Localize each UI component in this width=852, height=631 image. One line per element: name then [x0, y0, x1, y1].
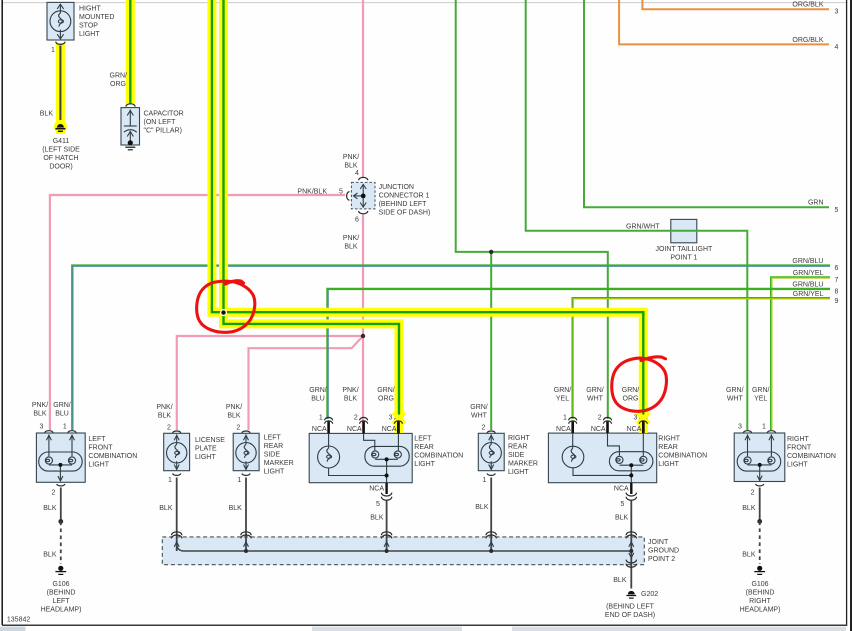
svg-text:PNK/: PNK/ [32, 402, 48, 409]
svg-text:GRN/: GRN/ [554, 387, 572, 394]
svg-text:PNK/: PNK/ [342, 387, 358, 394]
junction connector 1 box [351, 182, 375, 209]
wire PNK/BLK horizontal to junction pin 5 and down to left front pin 3 [50, 195, 345, 430]
wire PNK/BLK from top to junction connector pin 4 [362, 0, 364, 177]
left front pin 2 arc [57, 484, 65, 486]
bus junction dot left rear side marker [244, 549, 248, 553]
right rear NCA arcs pin 1 [569, 417, 577, 423]
wire GRN/BLU pin 6 to left front pin 1 [72, 266, 830, 430]
svg-text:1: 1 [63, 423, 67, 430]
svg-text:BLK: BLK [370, 515, 384, 522]
svg-text:BLU: BLU [55, 411, 69, 418]
capacitor ground bars [125, 146, 135, 148]
svg-text:RIGHT: RIGHT [658, 435, 681, 442]
svg-text:1: 1 [762, 423, 766, 430]
svg-text:(BEHIND LEFT: (BEHIND LEFT [379, 201, 428, 208]
svg-text:GRN/BLU: GRN/BLU [792, 281, 823, 288]
svg-text:BLU: BLU [311, 395, 325, 402]
frame right inner border [846, 0, 848, 626]
GRN core of capacitor wire [129, 0, 131, 105]
svg-text:COMBINATION: COMBINATION [414, 452, 463, 459]
left rear NCA arcs pin 2 [360, 417, 368, 423]
svg-text:FRONT: FRONT [88, 444, 113, 451]
svg-text:G202: G202 [641, 591, 658, 598]
svg-text:LICENSE: LICENSE [195, 437, 225, 444]
joint ground entry arrows [174, 542, 634, 558]
svg-text:NCA: NCA [382, 426, 397, 433]
svg-text:1: 1 [237, 477, 241, 484]
svg-text:GRN/YEL: GRN/YEL [793, 270, 824, 277]
svg-text:GRN/BLU: GRN/BLU [792, 258, 823, 265]
left front combination light box [36, 433, 85, 482]
junction dot halo and dot on wire A/B [220, 309, 227, 316]
svg-text:SIDE: SIDE [508, 452, 525, 459]
svg-text:2: 2 [598, 414, 602, 421]
svg-text:BLK: BLK [344, 244, 358, 251]
svg-text:JUNCTION: JUNCTION [379, 184, 414, 191]
svg-text:LIGHT: LIGHT [787, 462, 808, 469]
GRN core of highlighted wire B [224, 0, 400, 420]
left front combination internals [39, 435, 82, 481]
svg-text:GRN/: GRN/ [586, 387, 604, 394]
svg-text:GRN/WHT: GRN/WHT [626, 224, 660, 231]
joint ground entry arcs license [172, 532, 182, 539]
svg-text:5: 5 [621, 501, 625, 508]
svg-text:7: 7 [835, 277, 839, 284]
svg-text:NCA: NCA [591, 426, 606, 433]
joint ground exit arcs [626, 560, 636, 568]
svg-text:OF HATCH: OF HATCH [43, 155, 78, 162]
svg-text:ORG: ORG [378, 395, 394, 402]
lower arc redrawn right rear pin 3 [639, 421, 647, 424]
svg-text:BLK: BLK [344, 163, 358, 170]
svg-text:LIGHT: LIGHT [264, 468, 285, 475]
joint taillight point 1 box [671, 219, 697, 242]
frame left border [1, 0, 3, 625]
wire GRN/WHT branch to right rear side marker [490, 252, 492, 430]
svg-text:3: 3 [738, 423, 742, 430]
svg-text:BLK: BLK [615, 515, 629, 522]
wire GRN/WHT through joint taillight point to right front pin 3 [526, 0, 748, 430]
right rear filament dots [629, 463, 633, 467]
right rear combination light box [548, 433, 656, 483]
svg-text:PLATE: PLATE [195, 446, 217, 453]
svg-text:NCA: NCA [556, 426, 571, 433]
lower arc redrawn left rear pin 3 [394, 421, 402, 424]
wire ORG/BLK pin 3 [642, 0, 829, 9]
wire BLK left rear side marker to joint ground [245, 478, 247, 552]
left rear exit pin 5 arcs [381, 493, 391, 501]
svg-text:2: 2 [51, 489, 55, 496]
svg-text:LEFT: LEFT [264, 434, 282, 441]
svg-text:ORG: ORG [623, 395, 639, 402]
capacitor top connector arc [126, 104, 135, 107]
svg-text:YEL: YEL [556, 395, 569, 402]
svg-text:GRN/: GRN/ [53, 402, 71, 409]
svg-text:(BEHIND LEFT: (BEHIND LEFT [606, 604, 655, 611]
wire BLK dashed to G106 left [60, 522, 62, 565]
svg-text:135842: 135842 [7, 617, 30, 624]
joint ground exit arrow right rear [629, 553, 634, 558]
svg-text:REAR: REAR [658, 444, 677, 451]
svg-text:3: 3 [389, 414, 393, 421]
joint ground entry arcs right rear comb [626, 532, 636, 539]
svg-text:G106: G106 [751, 581, 768, 588]
svg-text:2: 2 [354, 414, 358, 421]
right front pin 1 arc [767, 431, 775, 433]
svg-text:GROUND: GROUND [648, 548, 679, 555]
right rear side marker light box [478, 433, 504, 470]
G411 ground symbol [54, 120, 67, 133]
G106 right ground symbol [754, 566, 765, 575]
wire GRN pin 5 [584, 0, 829, 207]
wire GRN/BLU pin 8 to left rear combination pin 1 [328, 289, 831, 419]
svg-text:LEFT: LEFT [414, 435, 432, 442]
capacitor internal ground dot [128, 140, 133, 145]
left marker pin 2 arc [242, 431, 250, 433]
junction connector pin 6 arc [359, 211, 368, 214]
capacitor box [121, 108, 140, 145]
joint ground point 2 box [162, 537, 644, 565]
svg-text:LEFT: LEFT [88, 436, 106, 443]
highlighter X mark right rear pin 3 [638, 413, 650, 424]
joint ground entry arcs left marker [241, 532, 251, 539]
frame bottom border [2, 624, 847, 626]
svg-text:GRN/: GRN/ [752, 387, 770, 394]
high mounted stop light box [47, 2, 74, 40]
svg-text:ORG/BLK: ORG/BLK [792, 37, 823, 44]
svg-text:BLK: BLK [229, 505, 243, 512]
wire PNK/BLK junction pin 6 down to splice dot [362, 215, 364, 431]
svg-text:6: 6 [835, 265, 839, 272]
black stub over X left rear pin 3 [397, 421, 400, 433]
svg-text:3: 3 [634, 414, 638, 421]
svg-text:MARKER: MARKER [264, 460, 294, 467]
svg-text:BLK: BLK [344, 395, 358, 402]
svg-text:YEL: YEL [754, 395, 767, 402]
svg-text:4: 4 [355, 170, 359, 177]
svg-text:(ON LEFT: (ON LEFT [144, 119, 177, 126]
highlighter GRN/ORG wire A to right rear combination [212, 0, 643, 433]
right front combination internals [737, 435, 781, 481]
svg-text:LIGHT: LIGHT [195, 454, 216, 461]
highlighter GRN/ORG wire B to left rear combination [224, 0, 400, 433]
wire GRN/WHT to rear markers and right rear combination pin 2 [456, 0, 608, 419]
left front pin 3 arc [45, 431, 53, 433]
GRN core of highlighted wire A [212, 0, 643, 420]
red annotation circle left [197, 281, 667, 412]
svg-text:BLK: BLK [43, 505, 57, 512]
left rear combination light box [309, 433, 412, 482]
svg-text:(LEFT SIDE: (LEFT SIDE [42, 147, 80, 154]
NCA stub left rear pin 2 [362, 422, 365, 434]
left rear combination internals [318, 433, 410, 482]
svg-text:1: 1 [319, 414, 323, 421]
right rear side marker internals [481, 435, 501, 470]
svg-text:(BEHIND: (BEHIND [746, 589, 775, 596]
svg-text:2: 2 [751, 489, 755, 496]
svg-text:NCA: NCA [312, 426, 327, 433]
svg-text:WHT: WHT [727, 395, 744, 402]
svg-text:1: 1 [168, 477, 172, 484]
svg-text:COMBINATION: COMBINATION [658, 452, 707, 459]
svg-text:HEADLAMP): HEADLAMP) [41, 606, 82, 613]
svg-text:LEFT: LEFT [52, 598, 70, 605]
svg-text:BLK: BLK [33, 411, 47, 418]
svg-text:G106: G106 [52, 581, 69, 588]
svg-text:GRN/: GRN/ [309, 387, 327, 394]
frame top grey line [3, 2, 846, 4]
svg-text:CONNECTOR 1: CONNECTOR 1 [379, 192, 430, 199]
right rear NCA arcs pin 3 [639, 417, 647, 423]
svg-text:GRN: GRN [808, 200, 824, 207]
left rear side marker light box [233, 433, 259, 470]
G202 ground symbol [626, 591, 636, 598]
license pin 2 arc [173, 431, 181, 433]
svg-text:NCA: NCA [369, 485, 384, 492]
junction connector internals [353, 184, 366, 208]
NCA stub right rear pin 3 [642, 422, 645, 434]
wire PNK/BLK splice to license plate light [177, 336, 363, 430]
wire BLK right rear combination to joint ground and G202 [630, 500, 632, 589]
stop light pin 1 connector arc [56, 42, 65, 45]
license plate light box [164, 433, 190, 470]
wire BLK left front combination to splice [60, 488, 62, 522]
svg-text:4: 4 [835, 44, 839, 51]
highlighter capacitor GRN/ORG wire [126, 0, 135, 105]
svg-text:PNK/: PNK/ [226, 404, 242, 411]
wire GRN/YEL pin 7 to right front pin 1 [771, 277, 830, 430]
svg-text:GRN/: GRN/ [726, 387, 744, 394]
svg-text:GRN/: GRN/ [470, 404, 488, 411]
svg-text:MOUNTED: MOUNTED [79, 14, 114, 21]
svg-text:5: 5 [339, 189, 343, 196]
svg-text:GRN/YEL: GRN/YEL [793, 291, 824, 298]
svg-text:WHT: WHT [587, 395, 604, 402]
bus junction dot left rear combination [385, 549, 389, 553]
NCA exit stub left rear pin 5 [385, 483, 387, 494]
svg-text:GRN/: GRN/ [110, 73, 128, 80]
NCA stub right rear pin 2 [606, 422, 609, 434]
svg-text:ORG/BLK: ORG/BLK [792, 2, 823, 9]
svg-text:RIGHT: RIGHT [787, 436, 810, 443]
svg-text:NCA: NCA [347, 426, 362, 433]
svg-text:1: 1 [563, 414, 567, 421]
svg-text:FRONT: FRONT [787, 445, 812, 452]
license plate light internals [167, 435, 187, 470]
svg-text:COMBINATION: COMBINATION [787, 453, 836, 460]
svg-text:LIGHT: LIGHT [79, 31, 100, 38]
svg-text:PNK/BLK: PNK/BLK [297, 189, 327, 196]
wire ORG/BLK pin 4 [619, 0, 829, 44]
right rear exit pin 5 arcs [626, 493, 636, 501]
svg-text:BLK: BLK [227, 413, 241, 420]
svg-text:2: 2 [167, 425, 171, 432]
svg-text:9: 9 [835, 298, 839, 305]
svg-text:3: 3 [835, 9, 839, 16]
svg-text:COMBINATION: COMBINATION [88, 453, 137, 460]
joint ground entry arcs right marker [486, 532, 496, 539]
svg-text:5: 5 [835, 207, 839, 214]
svg-text:LIGHT: LIGHT [508, 469, 529, 476]
splice dot PNK/BLK at left rear [361, 334, 365, 338]
black stub over X right rear pin 3 [642, 421, 645, 433]
svg-text:RIGHT: RIGHT [508, 435, 531, 442]
right front filament splice dot [758, 463, 762, 467]
svg-text:1: 1 [483, 477, 487, 484]
svg-text:3: 3 [40, 423, 44, 430]
svg-text:HIGHT: HIGHT [79, 5, 102, 12]
svg-text:BLK: BLK [40, 111, 54, 118]
svg-text:1: 1 [51, 47, 55, 54]
highlighter X mark left rear pin 3 [393, 413, 405, 424]
svg-text:GRN/: GRN/ [377, 387, 395, 394]
svg-text:G411: G411 [53, 138, 70, 145]
svg-text:BLK: BLK [159, 505, 173, 512]
svg-text:2: 2 [236, 425, 240, 432]
svg-text:NCA: NCA [627, 426, 642, 433]
right front pin 2 arc [756, 484, 764, 486]
svg-text:NCA: NCA [614, 485, 629, 492]
left front pin 1 arc [68, 431, 76, 433]
splice dot right front BLK [757, 519, 762, 524]
svg-text:LIGHT: LIGHT [658, 461, 679, 468]
NCA stub right rear pin 1 [571, 422, 574, 434]
svg-text:JOINT TAILLIGHT: JOINT TAILLIGHT [656, 246, 714, 253]
svg-text:CAPACITOR: CAPACITOR [144, 111, 184, 118]
left rear side marker internals [236, 435, 256, 470]
svg-text:(BEHIND: (BEHIND [47, 589, 76, 596]
svg-text:END OF DASH): END OF DASH) [605, 612, 655, 619]
svg-text:HEADLAMP): HEADLAMP) [740, 606, 781, 613]
svg-text:DOOR): DOOR) [49, 164, 72, 171]
capacitor symbol [124, 110, 137, 143]
svg-text:PNK/: PNK/ [343, 154, 359, 161]
svg-text:MARKER: MARKER [508, 460, 538, 467]
bottom UI strip [0, 625, 852, 631]
svg-text:"C" PILLAR): "C" PILLAR) [144, 128, 182, 135]
svg-text:BLK: BLK [158, 413, 172, 420]
junction connector dot [361, 194, 366, 199]
bus junction dot right rear combination [629, 549, 633, 553]
left rear NCA arcs pin 3 [394, 417, 402, 423]
wire BLK license plate to joint ground [176, 478, 178, 552]
right marker pin 1 arc [487, 474, 495, 476]
BLK core of stop light wire [59, 46, 61, 123]
svg-text:BLK: BLK [475, 504, 489, 511]
svg-text:LIGHT: LIGHT [414, 461, 435, 468]
wire BLK left rear combination to joint ground [386, 500, 388, 551]
svg-text:POINT 2: POINT 2 [648, 556, 675, 563]
svg-text:REAR: REAR [414, 444, 433, 451]
svg-text:8: 8 [835, 288, 839, 295]
svg-text:BLK: BLK [613, 577, 627, 584]
NCA stub left rear pin 1 [327, 422, 330, 434]
svg-text:LIGHT: LIGHT [88, 461, 109, 468]
svg-text:ORG: ORG [110, 81, 126, 88]
svg-text:REAR: REAR [508, 443, 527, 450]
svg-text:GRN/: GRN/ [622, 387, 640, 394]
svg-text:6: 6 [355, 217, 359, 224]
frame right outer border [850, 0, 852, 631]
svg-text:SIDE: SIDE [264, 451, 281, 458]
svg-text:WHT: WHT [471, 413, 488, 420]
wire BLK right rear side marker to joint ground [490, 478, 492, 552]
svg-text:PNK/: PNK/ [156, 404, 172, 411]
svg-text:SIDE OF DASH): SIDE OF DASH) [379, 209, 431, 216]
splice dot GRN/WHT markers [489, 250, 493, 254]
stop light bulb [50, 4, 71, 39]
wire GRN/YEL pin 9 to right rear combination pin 1 [573, 298, 830, 419]
junction connector pin 5 arc [347, 192, 350, 201]
svg-text:STOP: STOP [79, 22, 98, 29]
left front filament splice dot [58, 463, 62, 467]
right rear NCA arcs pin 2 [604, 417, 612, 423]
right rear combination internals [562, 433, 653, 483]
svg-text:BLK: BLK [742, 505, 756, 512]
wire BLK dashed to G106 right [759, 521, 761, 564]
NCA exit stub right rear pin 5 [630, 483, 632, 494]
svg-text:5: 5 [376, 501, 380, 508]
joint ground entry arcs left rear comb [381, 532, 391, 539]
license pin 1 arc [173, 474, 181, 476]
red annotation circle right [612, 358, 667, 411]
svg-text:RIGHT: RIGHT [749, 598, 772, 605]
left rear NCA arcs pin 1 [325, 417, 333, 423]
junction connector pin 4 arc [359, 177, 368, 180]
splice dot left front BLK [58, 519, 63, 524]
NCA stub left rear pin 3 [397, 422, 400, 434]
joint ground bus wire [177, 543, 632, 551]
svg-text:BLK: BLK [43, 552, 57, 559]
left marker pin 1 arc [242, 474, 250, 476]
svg-text:POINT 1: POINT 1 [670, 254, 697, 261]
bus junction dot right rear side marker [489, 549, 493, 553]
svg-text:REAR: REAR [264, 443, 283, 450]
right front pin 3 arc [743, 431, 751, 433]
wire BLK right front combination to splice [759, 488, 761, 522]
left rear filament dots [385, 457, 389, 461]
right front combination light box [734, 433, 785, 482]
svg-text:JOINT: JOINT [648, 539, 669, 546]
svg-text:2: 2 [482, 425, 486, 432]
svg-text:PNK/: PNK/ [343, 235, 359, 242]
wire PNK/BLK splice to left rear side marker [249, 336, 364, 430]
G106 left ground symbol [55, 566, 66, 575]
svg-text:BLK: BLK [742, 552, 756, 559]
highlighter stop light BLK wire [56, 43, 65, 134]
right marker pin 2 arc [487, 431, 495, 433]
